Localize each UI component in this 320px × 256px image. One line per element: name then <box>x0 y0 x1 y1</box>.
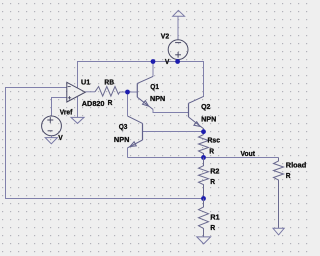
transistor Q3 mirrored <box>127 116 142 148</box>
resistor Rsc <box>199 135 209 158</box>
svg-text:Q2: Q2 <box>201 102 210 111</box>
svg-text:Vref: Vref <box>60 107 73 116</box>
wire Q2 emitter to Rsc top <box>203 129 205 135</box>
wire node A down to Q3 collector <box>127 92 129 116</box>
transistor Q1 <box>137 76 153 109</box>
svg-text:R: R <box>286 171 291 180</box>
ground below Rload <box>273 228 284 235</box>
wire V2 stem top to flag <box>177 16 179 40</box>
junction dot Q1 collector on rail <box>151 59 156 64</box>
op-amp U1 <box>67 82 86 102</box>
voltage source Vref <box>42 116 62 136</box>
resistor R1 <box>199 199 209 237</box>
wire Q3 base to Rsc top node <box>143 131 204 133</box>
svg-text:Q1: Q1 <box>150 82 159 91</box>
wire Vref to + input <box>52 98 67 117</box>
node A junction dot <box>125 90 130 95</box>
voltage source V2 <box>168 40 188 60</box>
wire feedback: opamp inverting input to R2/R1 node <box>6 88 204 199</box>
wire V2 bottom to rail <box>177 60 179 62</box>
svg-text:NPN: NPN <box>150 94 166 103</box>
wire Q1 collector to rail <box>152 62 154 77</box>
wire Q3 emitter down to Vout rail <box>127 148 129 158</box>
svg-text:Vout: Vout <box>241 149 256 158</box>
ground below R1 <box>197 237 211 244</box>
svg-text:R: R <box>210 177 215 186</box>
junction dot feedback node <box>201 196 206 201</box>
junction dot Vout node <box>201 155 206 160</box>
svg-text:R: R <box>209 147 214 156</box>
svg-text:R2: R2 <box>210 166 219 175</box>
resistor Rload <box>274 158 284 229</box>
svg-text:V2: V2 <box>161 32 169 41</box>
svg-text:R: R <box>210 223 215 232</box>
wire RB to Q1 base, node A <box>120 91 138 93</box>
wire +V rail <box>78 62 204 97</box>
power flag +V above V2 <box>173 10 185 16</box>
svg-text:R1: R1 <box>210 213 220 222</box>
svg-text:Q3: Q3 <box>119 122 128 131</box>
svg-text:U1: U1 <box>81 77 91 86</box>
wire Vout rail <box>128 157 279 159</box>
resistor R2 <box>199 158 209 199</box>
ground below Vref <box>45 138 57 144</box>
resistor RB <box>95 87 120 97</box>
wire Vref bottom stub <box>51 136 53 138</box>
svg-text:NPN: NPN <box>114 135 130 144</box>
svg-text:R: R <box>108 98 113 107</box>
svg-text:RB: RB <box>104 78 114 87</box>
wire opamp negative supply to ground <box>77 97 79 117</box>
svg-text:NPN: NPN <box>201 114 217 123</box>
svg-text:Rload: Rload <box>286 161 307 170</box>
junction dot V2 on rail <box>175 59 180 64</box>
wire Q1 emitter to Q2 base <box>153 109 189 112</box>
junction dot Rsc top node <box>201 129 206 134</box>
wire opamp output to RB <box>85 91 95 93</box>
svg-text:AD820: AD820 <box>82 99 105 108</box>
svg-text:Rsc: Rsc <box>208 136 221 145</box>
transistor Q2 <box>189 96 204 129</box>
ground below op-amp <box>71 117 84 123</box>
